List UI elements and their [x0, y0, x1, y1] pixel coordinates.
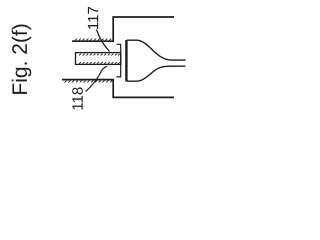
horn upper profile into throat	[127, 40, 186, 60]
horn lower profile into throat	[127, 66, 186, 81]
label 118	[72, 87, 83, 109]
horn mouth face plate	[125, 40, 127, 82]
hatch ticks above upper wall	[75, 39, 111, 41]
figure title "Fig. 2(f)"	[12, 25, 32, 94]
leader line from 117 to fiber top wall	[97, 30, 110, 52]
hatch ticks inside fiber tube bottom edge	[79, 62, 120, 64]
label 117	[88, 7, 98, 29]
upper housing wall and top plate	[72, 17, 174, 41]
fiber tube body	[76, 53, 121, 65]
lower housing wall and bottom plate	[62, 80, 174, 98]
hatch ticks inside fiber tube top edge	[79, 54, 120, 56]
ferrule collar at fiber end	[117, 44, 121, 77]
hatch ticks below lower wall	[65, 81, 113, 83]
leader line from 118 to fiber bottom wall	[86, 67, 108, 92]
